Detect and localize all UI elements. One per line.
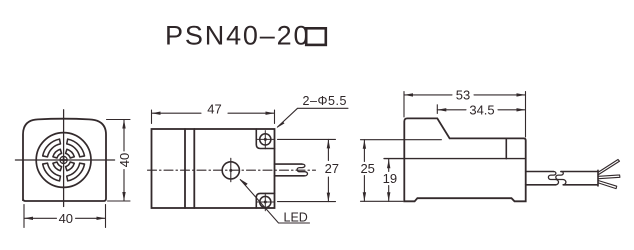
cable middle view top line — [275, 163, 303, 165]
cable break S — [297, 164, 307, 176]
svg-text:2–Φ5.5: 2–Φ5.5 — [303, 94, 348, 108]
dim 40 right dimension line — [123, 120, 125, 152]
bottom hole center dot — [264, 201, 267, 204]
wire middle — [599, 175, 620, 179]
cable gland vertical line — [505, 138, 507, 158]
dim 19 arrows — [387, 159, 390, 168]
title suffix box — [306, 28, 326, 45]
svg-text:40: 40 — [117, 153, 132, 167]
grille outer ring slots — [43, 139, 85, 181]
dim 25 extension top (through body) — [361, 139, 442, 141]
dim 47 arrows — [152, 112, 161, 115]
dim 53 dimension line — [404, 94, 452, 96]
cable middle view bottom line — [275, 175, 305, 177]
dim 27 dimension line — [327, 139, 329, 160]
dim 40 right arrows — [122, 120, 125, 129]
LED hole center dot — [229, 169, 232, 172]
top hole crosshair — [264, 131, 266, 149]
svg-text:34.5: 34.5 — [469, 102, 494, 117]
interior line 19 level — [384, 158, 526, 160]
centerline dash-dot — [148, 169, 316, 171]
svg-text:PSN40–20: PSN40–20 — [165, 21, 310, 51]
dim 27 extension lines — [278, 138, 336, 140]
label 2-phi5.5 leader — [278, 108, 349, 127]
dim 40 bottom dimension line — [24, 217, 57, 219]
dim 53 arrows — [404, 93, 413, 96]
dim 34.5 tick — [436, 105, 438, 114]
grille center cross — [60, 159, 67, 161]
face cap line 1 — [184, 129, 186, 208]
svg-text:47: 47 — [207, 101, 221, 116]
svg-text:27: 27 — [325, 161, 339, 176]
dim 47 dimension line — [152, 112, 202, 114]
bottom hole circle — [260, 196, 271, 207]
cable right view first segment — [526, 171, 554, 173]
label 2-phi5.5 arrowhead — [276, 122, 284, 128]
wire top — [599, 160, 620, 175]
wire bottom — [599, 181, 617, 189]
dim 19 dimension line — [388, 159, 390, 171]
top mounting ear — [256, 129, 274, 149]
svg-text:LED: LED — [284, 210, 308, 224]
dim 47 extension lines — [151, 110, 153, 124]
dim 27 arrows — [327, 139, 330, 148]
face cap line 2 — [193, 129, 195, 208]
grille outer circle — [36, 133, 91, 188]
dim 25 dimension line — [363, 140, 365, 162]
label LED arrowhead — [240, 179, 248, 186]
svg-text:40: 40 — [59, 211, 73, 226]
svg-text:53: 53 — [456, 88, 470, 103]
dim 40 right extension lines — [107, 119, 131, 121]
dim 53 extension lines — [403, 92, 405, 118]
bottom mounting ear — [256, 193, 274, 208]
top hole center dot — [264, 138, 267, 141]
label LED leader — [240, 180, 309, 223]
top hole circle — [260, 134, 271, 145]
vertical centerline — [63, 110, 65, 207]
LED hole vertical crosshair — [230, 158, 232, 181]
dim 34.5 arrows — [437, 108, 446, 111]
svg-text:19: 19 — [383, 171, 397, 186]
cable break S 1 — [548, 172, 558, 185]
dim 25 arrows — [363, 140, 366, 149]
bottom hole crosshair — [264, 193, 266, 211]
body outline front view — [23, 119, 106, 201]
cable break S 2 — [556, 172, 566, 185]
svg-text:25: 25 — [360, 161, 374, 176]
dim 34.5 dimension line — [437, 109, 466, 111]
bottom extension line — [361, 200, 404, 202]
horizontal centerline — [15, 159, 114, 161]
body rectangle — [152, 129, 275, 208]
dim 40 bottom extension lines — [23, 205, 25, 228]
grille inner ring slots — [53, 149, 74, 170]
grille center circle — [60, 156, 67, 163]
dim 40 bottom arrows — [24, 217, 33, 220]
LED hole circle — [222, 162, 239, 179]
cable right view second segment — [561, 170, 598, 186]
body outline right view — [404, 118, 525, 201]
